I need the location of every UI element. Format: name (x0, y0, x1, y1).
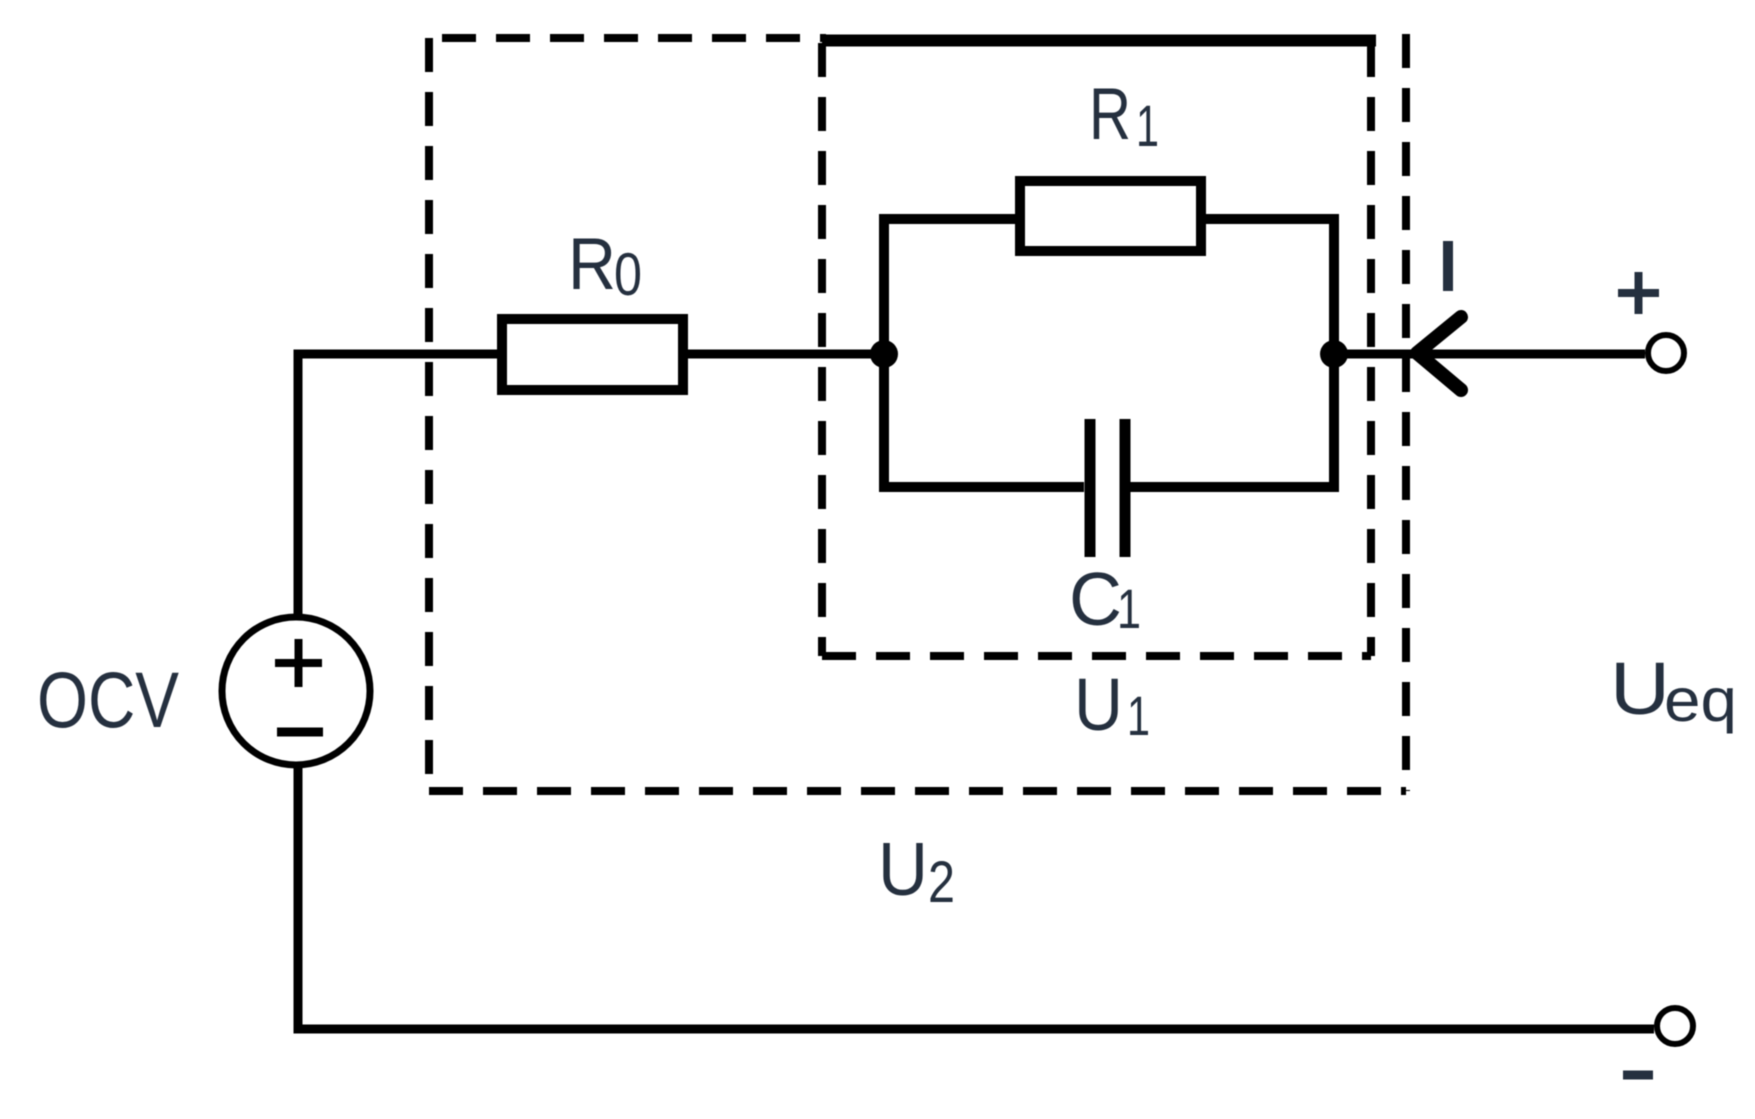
svg-text:OCV: OCV (37, 655, 179, 744)
svg-text:U: U (1610, 647, 1670, 730)
svg-text:eq: eq (1664, 666, 1737, 734)
svg-text:R: R (568, 224, 616, 305)
svg-text:0: 0 (614, 241, 642, 308)
svg-text:1: 1 (1127, 684, 1150, 747)
svg-text:1: 1 (1136, 94, 1159, 159)
svg-text:2: 2 (928, 850, 955, 915)
svg-text:R: R (1089, 74, 1131, 155)
svg-text:C: C (1069, 557, 1122, 641)
svg-text:U: U (878, 827, 928, 911)
svg-text:U: U (1074, 663, 1123, 746)
svg-text:1: 1 (1117, 577, 1141, 640)
